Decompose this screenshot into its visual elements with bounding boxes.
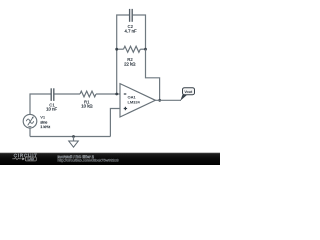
node junction at inverting input [115,93,118,96]
op-amp OA1 [120,84,155,117]
svg-text:4.7 nF: 4.7 nF [125,29,138,34]
node output junction [158,99,161,102]
wire noninverting input to bottom rail [110,109,120,137]
resistor R1 [80,91,96,97]
CircuitLab logo LAB box [25,157,36,161]
wire feedback right path down to output [146,49,160,100]
CircuitLab logo arrow [22,158,25,161]
wire from V1 top to C1 left plate [30,94,51,115]
node R2 left junction [115,48,118,51]
wire C1 to R1 [54,93,80,95]
svg-text:Vout: Vout [184,90,193,94]
svg-text:http://circuitlab.com/c8bak75w: http://circuitlab.com/c8bak75w932c3 [57,159,118,163]
voltage source V1 [23,114,37,128]
svg-text:LAB: LAB [28,157,35,161]
wire bottom rail [30,136,110,138]
footer bar [0,153,220,165]
node R2 right junction [144,48,147,51]
wire C2 right side down to R2 [133,15,146,49]
resistor R2 with leads [117,46,146,52]
ground [69,137,79,148]
svg-text:22 kΩ: 22 kΩ [124,61,136,66]
svg-text:1 kHz: 1 kHz [40,124,50,129]
wire R1 to inverting input [96,93,120,95]
CircuitLab logo waveform [12,158,21,160]
svg-text:10 kΩ: 10 kΩ [81,103,93,108]
svg-text:10 nF: 10 nF [46,106,57,111]
wire feedback left vertical + top lead to C2 [117,15,130,94]
wire V1 bottom stub [29,128,31,137]
node ground junction [72,135,75,138]
capacitor C1 [51,88,54,101]
net flag Vout [180,88,194,101]
svg-text:LM324: LM324 [128,99,141,104]
capacitor C2 [130,9,133,22]
wire op-amp output to Vout flag [155,99,181,101]
